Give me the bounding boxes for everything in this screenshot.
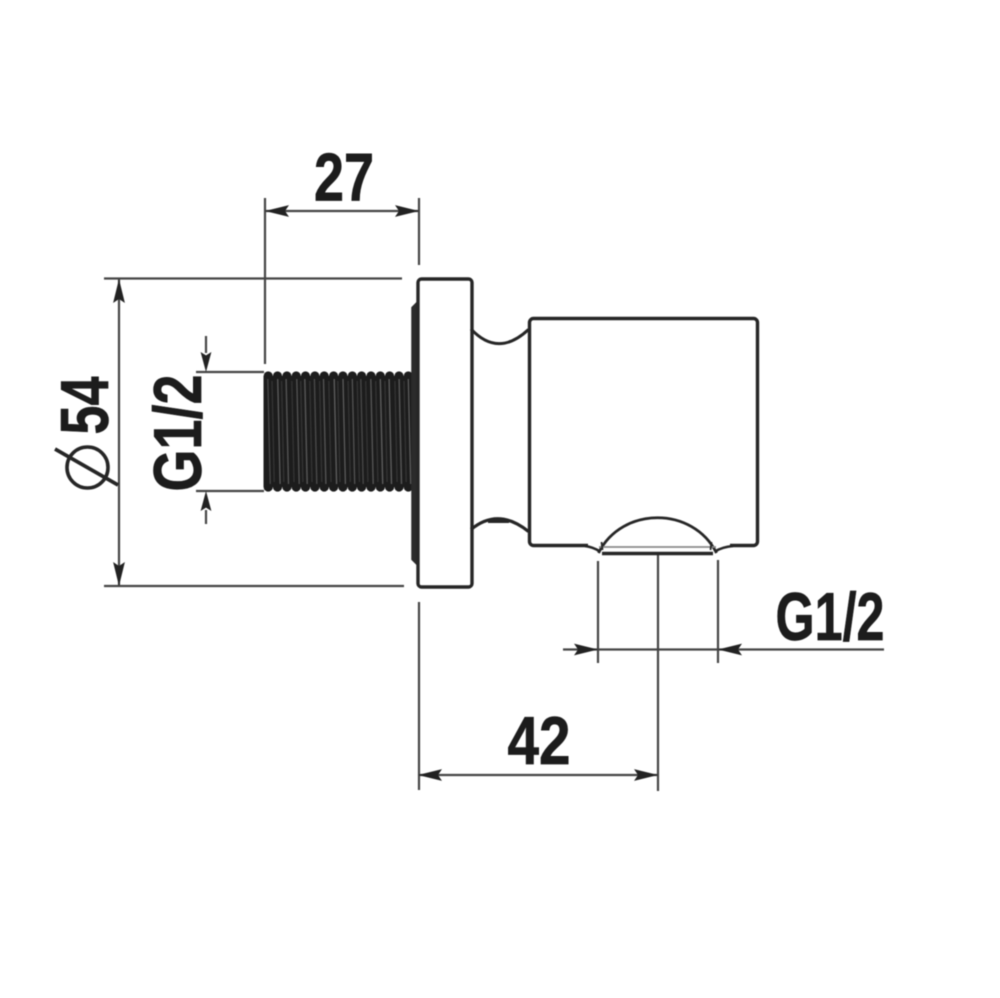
svg-text:27: 27: [314, 140, 374, 216]
svg-text:42: 42: [508, 703, 571, 779]
svg-text:G1/2: G1/2: [140, 375, 216, 492]
svg-text:54: 54: [47, 376, 123, 434]
svg-text:G1/2: G1/2: [776, 579, 885, 655]
